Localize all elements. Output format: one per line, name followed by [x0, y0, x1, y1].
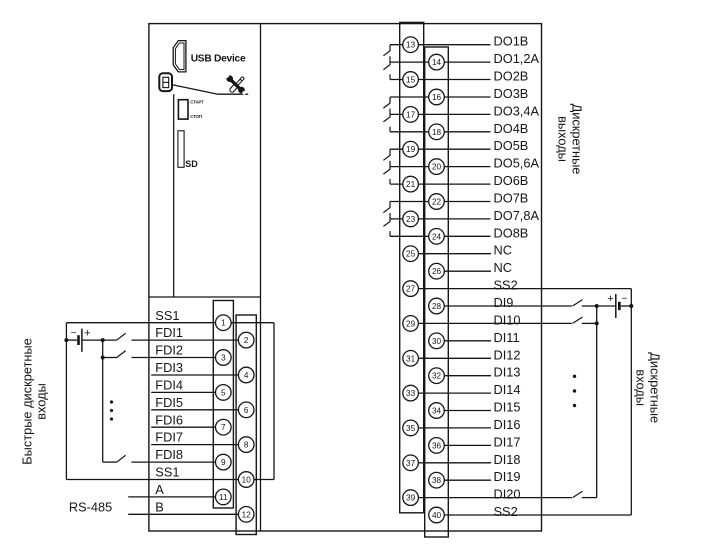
svg-text:8: 8 — [244, 441, 249, 450]
svg-text:22: 22 — [432, 198, 442, 207]
svg-text:Дискретные: Дискретные — [648, 352, 663, 423]
svg-text:38: 38 — [432, 476, 442, 485]
svg-text:37: 37 — [406, 459, 416, 468]
svg-text:3: 3 — [221, 354, 226, 363]
svg-text:−: − — [71, 328, 77, 339]
svg-text:12: 12 — [242, 510, 252, 519]
svg-text:27: 27 — [406, 285, 416, 294]
svg-text:DO5B: DO5B — [494, 138, 529, 153]
svg-text:A: A — [155, 482, 164, 497]
svg-text:входы: входы — [34, 383, 49, 420]
svg-text:выходы: выходы — [555, 116, 570, 162]
svg-text:DI17: DI17 — [494, 434, 521, 449]
svg-text:NC: NC — [494, 243, 512, 258]
svg-text:11: 11 — [219, 493, 228, 502]
svg-text:DI18: DI18 — [494, 452, 521, 467]
svg-text:FDI5: FDI5 — [155, 395, 183, 410]
svg-text:DO6B: DO6B — [494, 173, 529, 188]
svg-text:DI20: DI20 — [494, 487, 521, 502]
svg-text:DO4B: DO4B — [494, 121, 529, 136]
svg-text:DI13: DI13 — [494, 365, 521, 380]
svg-text:DI14: DI14 — [494, 382, 521, 397]
svg-text:Быстрые дискретные: Быстрые дискретные — [20, 338, 35, 465]
svg-text:1: 1 — [221, 319, 226, 328]
svg-text:7: 7 — [221, 423, 226, 432]
svg-text:6: 6 — [244, 406, 249, 415]
svg-text:FDI7: FDI7 — [155, 430, 183, 445]
svg-text:40: 40 — [432, 511, 442, 520]
svg-text:14: 14 — [432, 58, 442, 67]
svg-text:SS2: SS2 — [494, 504, 518, 519]
svg-text:DO8B: DO8B — [494, 225, 529, 240]
svg-text:28: 28 — [432, 302, 442, 311]
svg-text:29: 29 — [406, 319, 416, 328]
svg-text:4: 4 — [244, 371, 249, 380]
svg-text:DI16: DI16 — [494, 417, 521, 432]
svg-text:33: 33 — [406, 389, 416, 398]
svg-text:+: + — [84, 328, 90, 340]
svg-text:FDI3: FDI3 — [155, 360, 183, 375]
svg-text:24: 24 — [432, 232, 442, 241]
svg-text:DO1B: DO1B — [494, 34, 529, 49]
svg-text:23: 23 — [406, 215, 416, 224]
svg-text:39: 39 — [406, 494, 416, 503]
svg-text:2: 2 — [244, 336, 249, 345]
svg-text:DI10: DI10 — [494, 312, 521, 327]
svg-text:B: B — [155, 499, 164, 514]
svg-text:SS1: SS1 — [155, 308, 179, 323]
svg-text:35: 35 — [406, 424, 416, 433]
svg-text:SS1: SS1 — [155, 465, 179, 480]
svg-text:FDI1: FDI1 — [155, 325, 183, 340]
svg-text:36: 36 — [432, 441, 442, 450]
svg-text:34: 34 — [432, 407, 442, 416]
svg-text:DI15: DI15 — [494, 400, 521, 415]
svg-text:SS2: SS2 — [494, 278, 518, 293]
svg-text:18: 18 — [432, 128, 442, 137]
svg-text:Дискретные: Дискретные — [569, 104, 584, 175]
svg-text:31: 31 — [406, 354, 416, 363]
svg-text:FDI8: FDI8 — [155, 447, 183, 462]
svg-text:21: 21 — [406, 180, 416, 189]
svg-text:25: 25 — [406, 250, 416, 259]
svg-text:10: 10 — [242, 476, 252, 485]
svg-text:NC: NC — [494, 260, 512, 275]
svg-text:5: 5 — [221, 388, 226, 397]
svg-text:26: 26 — [432, 267, 442, 276]
svg-text:DO1,2A: DO1,2A — [494, 51, 540, 66]
svg-text:13: 13 — [406, 41, 416, 50]
svg-text:DI11: DI11 — [494, 330, 520, 345]
svg-text:DO3,4A: DO3,4A — [494, 103, 540, 118]
svg-text:DO7,8A: DO7,8A — [494, 208, 540, 223]
svg-text:DO7B: DO7B — [494, 191, 529, 206]
svg-text:USB Device: USB Device — [191, 54, 246, 65]
svg-text:−: − — [622, 293, 628, 304]
svg-text:СТАРТ: СТАРТ — [190, 100, 204, 105]
svg-text:FDI6: FDI6 — [155, 412, 183, 427]
svg-text:30: 30 — [432, 337, 442, 346]
svg-text:20: 20 — [432, 163, 442, 172]
svg-text:17: 17 — [406, 110, 416, 119]
svg-text:FDI4: FDI4 — [155, 378, 183, 393]
svg-text:DI12: DI12 — [494, 347, 521, 362]
svg-text:DO5,6A: DO5,6A — [494, 156, 540, 171]
svg-text:19: 19 — [406, 145, 416, 154]
svg-text:+: + — [607, 293, 613, 305]
svg-text:RS-485: RS-485 — [69, 500, 112, 515]
svg-text:DO2B: DO2B — [494, 69, 529, 84]
svg-text:FDI2: FDI2 — [155, 343, 183, 358]
svg-text:DO3B: DO3B — [494, 86, 529, 101]
svg-text:DI9: DI9 — [494, 295, 514, 310]
svg-text:16: 16 — [432, 93, 442, 102]
svg-text:SD: SD — [185, 159, 198, 169]
svg-text:DI19: DI19 — [494, 469, 521, 484]
svg-text:входы: входы — [634, 369, 649, 406]
svg-text:15: 15 — [406, 76, 416, 85]
svg-text:9: 9 — [221, 458, 226, 467]
svg-text:32: 32 — [432, 372, 442, 381]
svg-text:СТОП: СТОП — [190, 114, 201, 119]
